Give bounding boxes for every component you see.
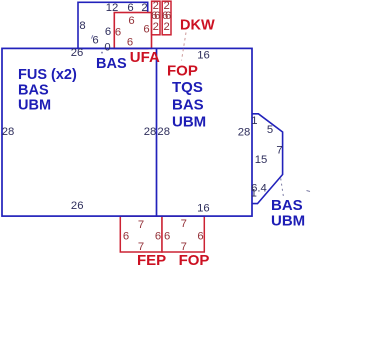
- svg-text:7: 7: [138, 219, 144, 231]
- red FOP box: [162, 216, 204, 252]
- svg-text:6: 6: [92, 35, 98, 47]
- svg-text:0: 0: [104, 41, 110, 53]
- leader bay BAS dashed: [281, 179, 284, 198]
- divider wire between left and right halves: [156, 48, 158, 216]
- svg-text:6: 6: [115, 27, 121, 39]
- svg-text:1: 1: [251, 115, 257, 127]
- svg-text:28: 28: [2, 126, 15, 138]
- svg-text:16: 16: [197, 203, 210, 215]
- svg-text:FOP: FOP: [179, 252, 210, 269]
- top blue annex box: [78, 2, 148, 48]
- svg-text:UBM: UBM: [18, 98, 51, 114]
- svg-text:12: 12: [106, 2, 119, 14]
- svg-text:26: 26: [71, 47, 84, 59]
- svg-text:BAS: BAS: [271, 197, 303, 214]
- svg-text:8: 8: [79, 20, 85, 32]
- right bay polygon: [252, 114, 282, 204]
- svg-text:6: 6: [127, 2, 133, 14]
- svg-text:28: 28: [157, 126, 170, 138]
- svg-text:28: 28: [144, 126, 157, 138]
- svg-text:UBM: UBM: [271, 213, 305, 230]
- svg-text:BAS: BAS: [172, 96, 204, 113]
- svg-text:6: 6: [105, 26, 111, 38]
- svg-text:6: 6: [123, 230, 129, 242]
- svg-text:FUS (x2): FUS (x2): [18, 67, 77, 83]
- red narrow box 1: [152, 1, 160, 35]
- svg-text:5: 5: [267, 124, 273, 136]
- main building outline: [2, 48, 252, 216]
- svg-text:1: 1: [251, 188, 257, 200]
- svg-text:BAS: BAS: [18, 82, 49, 98]
- svg-text:2: 2: [153, 21, 159, 33]
- svg-text:6: 6: [197, 230, 203, 242]
- svg-text:2: 2: [141, 2, 147, 14]
- leader bay small dash: [307, 191, 311, 192]
- leader BAS top tick: [91, 35, 93, 38]
- svg-text:BAS: BAS: [96, 56, 127, 72]
- svg-text:26: 26: [71, 200, 84, 212]
- svg-text:TQS: TQS: [172, 79, 203, 96]
- leader DKW dashed: [182, 33, 187, 61]
- svg-text:UFA: UFA: [130, 49, 160, 66]
- svg-text:7: 7: [181, 218, 187, 230]
- svg-text:FEP: FEP: [137, 252, 166, 269]
- svg-text:DKW: DKW: [180, 18, 215, 34]
- svg-text:15: 15: [255, 154, 268, 166]
- svg-text:6: 6: [143, 24, 149, 36]
- svg-text:UBM: UBM: [172, 114, 206, 131]
- red FEP box: [120, 216, 162, 252]
- red narrow box 2: [162, 1, 171, 35]
- svg-text:6: 6: [127, 36, 133, 48]
- red UFA box: [114, 13, 151, 49]
- svg-text:2: 2: [163, 21, 169, 33]
- svg-text:7: 7: [276, 145, 282, 157]
- svg-text:16: 16: [197, 49, 210, 61]
- svg-text:28: 28: [238, 127, 251, 139]
- svg-text:6: 6: [164, 230, 170, 242]
- svg-text:6: 6: [128, 15, 134, 27]
- svg-text:FOP: FOP: [167, 63, 198, 80]
- svg-text:6: 6: [155, 230, 161, 242]
- leader BAS top dot: [101, 52, 103, 54]
